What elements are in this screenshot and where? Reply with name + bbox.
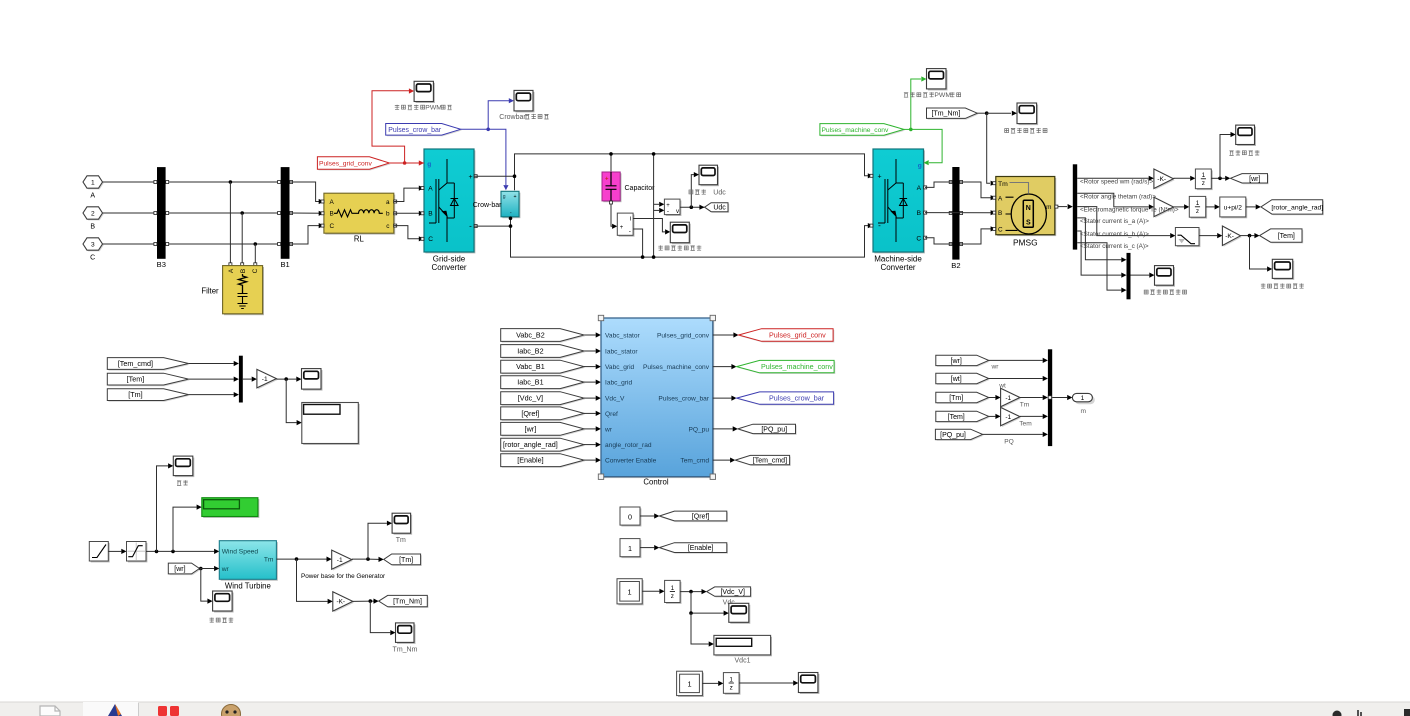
svg-text:+: + (513, 194, 516, 200)
svg-text:-: - (510, 211, 512, 217)
svg-text:[Enable]: [Enable] (688, 545, 714, 552)
svg-text:[Tem_cmd]: [Tem_cmd] (118, 359, 153, 368)
svg-text:Control: Control (643, 477, 668, 486)
svg-text:Filter: Filter (201, 287, 219, 296)
svg-text:wr: wr (604, 426, 613, 433)
svg-text:z: z (730, 684, 733, 691)
svg-text:Pulses_crow_bar: Pulses_crow_bar (388, 127, 442, 134)
svg-text:+: + (468, 174, 472, 181)
svg-text:[Tem_cmd]: [Tem_cmd] (753, 458, 787, 465)
svg-text:RL: RL (354, 235, 365, 244)
svg-text:Pulses_machine_conv: Pulses_machine_conv (643, 364, 710, 371)
svg-text:B3: B3 (157, 260, 166, 269)
svg-text:[rotor_angle_rad]: [rotor_angle_rad] (1271, 204, 1323, 211)
svg-text:[PQ_pu]: [PQ_pu] (761, 426, 787, 433)
svg-text:A: A (998, 195, 1003, 202)
svg-text:g: g (503, 194, 506, 200)
svg-text:Tem_cmd: Tem_cmd (680, 458, 709, 465)
svg-text:0: 0 (628, 512, 632, 521)
svg-text:[Vdc_V]: [Vdc_V] (720, 589, 745, 596)
svg-text:Pulses_crow_bar: Pulses_crow_bar (658, 396, 709, 403)
svg-text:Tem: Tem (1019, 420, 1032, 427)
svg-text:z: z (1202, 180, 1205, 187)
svg-text:[Vdc_V]: [Vdc_V] (518, 394, 543, 403)
svg-text:[wr]: [wr] (951, 358, 962, 365)
svg-text:[Tm]: [Tm] (128, 390, 142, 399)
svg-text:PWM: PWM (934, 92, 951, 99)
svg-text:Pulses_machine_conv: Pulses_machine_conv (821, 127, 889, 134)
svg-text:B1: B1 (280, 260, 289, 269)
svg-text:Pulses_machine_conv: Pulses_machine_conv (761, 362, 833, 371)
svg-text:1: 1 (628, 544, 632, 553)
svg-text:[wr]: [wr] (174, 566, 185, 573)
svg-text:<Stator current is_a (A)>: <Stator current is_a (A)> (1080, 218, 1149, 225)
svg-text:Udc: Udc (713, 205, 726, 212)
svg-text:[PQ_pu]: [PQ_pu] (940, 432, 966, 439)
svg-text:Iabc_grid: Iabc_grid (605, 380, 632, 387)
svg-text:Wind Turbine: Wind Turbine (225, 581, 271, 590)
svg-text:Wind Speed: Wind Speed (222, 548, 259, 555)
svg-text:Vdc1: Vdc1 (735, 658, 751, 665)
svg-text:B: B (330, 211, 334, 218)
svg-text:-: - (629, 228, 631, 235)
svg-text:[Tem]: [Tem] (948, 414, 965, 421)
svg-text:i: i (630, 216, 631, 223)
svg-text:1: 1 (1202, 172, 1206, 179)
svg-text:-1: -1 (262, 376, 268, 383)
svg-text:Iabc_stator: Iabc_stator (605, 349, 638, 356)
svg-text:+: + (620, 225, 624, 231)
svg-text:m: m (1080, 408, 1086, 415)
svg-text:B: B (240, 269, 247, 273)
svg-text:1: 1 (729, 676, 733, 683)
svg-text:Pulses_grid_conv: Pulses_grid_conv (319, 160, 372, 167)
svg-text:<Electromagnetic torque Te (N*: <Electromagnetic torque Te (N*m)> (1080, 207, 1179, 214)
svg-text:wr: wr (991, 363, 1000, 370)
svg-text:C: C (998, 227, 1003, 234)
svg-text:Qref: Qref (605, 411, 618, 418)
svg-text:Capacitor: Capacitor (625, 185, 656, 192)
svg-text:<Rotor speed wm (rad/s)>: <Rotor speed wm (rad/s)> (1080, 178, 1153, 185)
svg-text:Power base for the Generator: Power base for the Generator (301, 573, 386, 580)
svg-text:A: A (330, 199, 335, 206)
svg-text:u+pi/2: u+pi/2 (1224, 204, 1242, 211)
svg-text:Pulses_grid_conv: Pulses_grid_conv (657, 333, 710, 340)
svg-text:A: A (228, 268, 235, 273)
svg-text:3: 3 (91, 241, 95, 248)
svg-text:b: b (386, 211, 390, 218)
svg-text:+: + (877, 174, 881, 181)
svg-text:Vabc_B1: Vabc_B1 (516, 362, 545, 371)
svg-text:Converter: Converter (880, 263, 915, 272)
svg-text:Udc: Udc (713, 190, 726, 197)
svg-text:PQ: PQ (1004, 438, 1014, 445)
svg-text:B: B (998, 210, 1002, 217)
svg-text:<Rotor angle thetam (rad)>: <Rotor angle thetam (rad)> (1080, 194, 1156, 201)
svg-text:Iabc_B2: Iabc_B2 (517, 347, 543, 356)
svg-text:Crowbar: Crowbar (499, 114, 526, 121)
svg-text:[Tem]: [Tem] (127, 375, 145, 384)
svg-text:Pulses_grid_conv: Pulses_grid_conv (769, 331, 826, 340)
svg-text:Pulses_crow_bar: Pulses_crow_bar (769, 394, 825, 403)
svg-text:-: - (878, 221, 881, 230)
svg-text:Tm: Tm (998, 181, 1008, 188)
svg-text:A: A (917, 185, 922, 192)
svg-text:Vabc_grid: Vabc_grid (605, 364, 635, 371)
svg-text:1: 1 (671, 585, 675, 592)
svg-text:z: z (671, 593, 674, 600)
svg-text:[Tm]: [Tm] (399, 557, 413, 564)
svg-text:-1: -1 (1005, 414, 1011, 421)
svg-text:Converter: Converter (431, 263, 466, 272)
svg-text:-K-: -K- (337, 599, 346, 606)
svg-text:N: N (1026, 205, 1031, 212)
svg-text:S: S (1026, 220, 1031, 227)
svg-text:Tm_Nm: Tm_Nm (393, 646, 418, 653)
svg-text:A: A (90, 193, 95, 200)
svg-text:[Qref]: [Qref] (692, 514, 710, 521)
svg-text:PWM: PWM (425, 105, 442, 112)
svg-text:Tm: Tm (396, 537, 406, 544)
svg-text:a: a (386, 199, 390, 206)
svg-text:<Stator current is_c (A)>: <Stator current is_c (A)> (1080, 243, 1149, 250)
svg-text:PQ_pu: PQ_pu (688, 426, 709, 433)
svg-text:2: 2 (91, 210, 95, 217)
svg-text:-1: -1 (337, 557, 343, 564)
svg-text:A: A (428, 186, 433, 193)
svg-text:[wr]: [wr] (1249, 176, 1260, 183)
svg-text:B2: B2 (951, 261, 960, 270)
svg-text:g: g (918, 163, 922, 170)
svg-text:Vabc_B2: Vabc_B2 (516, 331, 545, 340)
svg-text:C: C (330, 223, 335, 230)
svg-text:Tm: Tm (264, 557, 274, 564)
svg-text:1: 1 (91, 179, 95, 186)
svg-text:-1: -1 (1005, 395, 1011, 402)
svg-text:-: - (469, 221, 472, 230)
svg-text:<Stator current is_b (A)>: <Stator current is_b (A)> (1080, 231, 1149, 238)
svg-text:-K-: -K- (1157, 176, 1166, 183)
svg-text:Crow-bar: Crow-bar (473, 202, 502, 209)
svg-text:[Tm]: [Tm] (949, 395, 963, 402)
svg-text:-: - (667, 208, 669, 215)
svg-text:[wt]: [wt] (951, 376, 962, 383)
svg-text:m: m (1046, 204, 1051, 211)
svg-text:B: B (90, 224, 95, 231)
svg-text:Iabc_B1: Iabc_B1 (517, 378, 543, 387)
svg-text:Vabc_stator: Vabc_stator (605, 333, 641, 340)
svg-text:1: 1 (1196, 200, 1200, 207)
svg-text:C: C (252, 268, 259, 273)
svg-text:1: 1 (687, 679, 691, 688)
svg-text:B: B (917, 210, 922, 217)
svg-text:[rotor_angle_rad]: [rotor_angle_rad] (503, 440, 558, 449)
svg-text:z: z (1196, 208, 1199, 215)
svg-text:-K-: -K- (1225, 233, 1234, 240)
svg-text:[Enable]: [Enable] (517, 456, 543, 465)
svg-text:[Qref]: [Qref] (521, 409, 539, 418)
svg-text:1: 1 (1081, 395, 1085, 402)
svg-text:wr: wr (221, 566, 230, 573)
svg-text:C: C (916, 235, 921, 242)
svg-text:Converter Enable: Converter Enable (605, 458, 657, 465)
svg-text:[Tm_Nm]: [Tm_Nm] (932, 111, 961, 118)
svg-text:[Tem]: [Tem] (1278, 233, 1295, 240)
svg-text:Vdc_V: Vdc_V (605, 396, 625, 403)
svg-text:B: B (428, 211, 433, 218)
svg-text:+: + (605, 177, 609, 183)
svg-text:g: g (427, 161, 431, 168)
svg-text:angle_rotor_rad: angle_rotor_rad (605, 442, 652, 449)
svg-text:Tm: Tm (1020, 402, 1030, 409)
svg-text:C: C (90, 255, 95, 262)
svg-text:[wr]: [wr] (525, 425, 537, 434)
svg-text:C: C (428, 236, 433, 243)
svg-text:[Tm_Nm]: [Tm_Nm] (393, 599, 422, 606)
svg-text:PMSG: PMSG (1013, 238, 1038, 248)
svg-text:1: 1 (628, 587, 632, 596)
